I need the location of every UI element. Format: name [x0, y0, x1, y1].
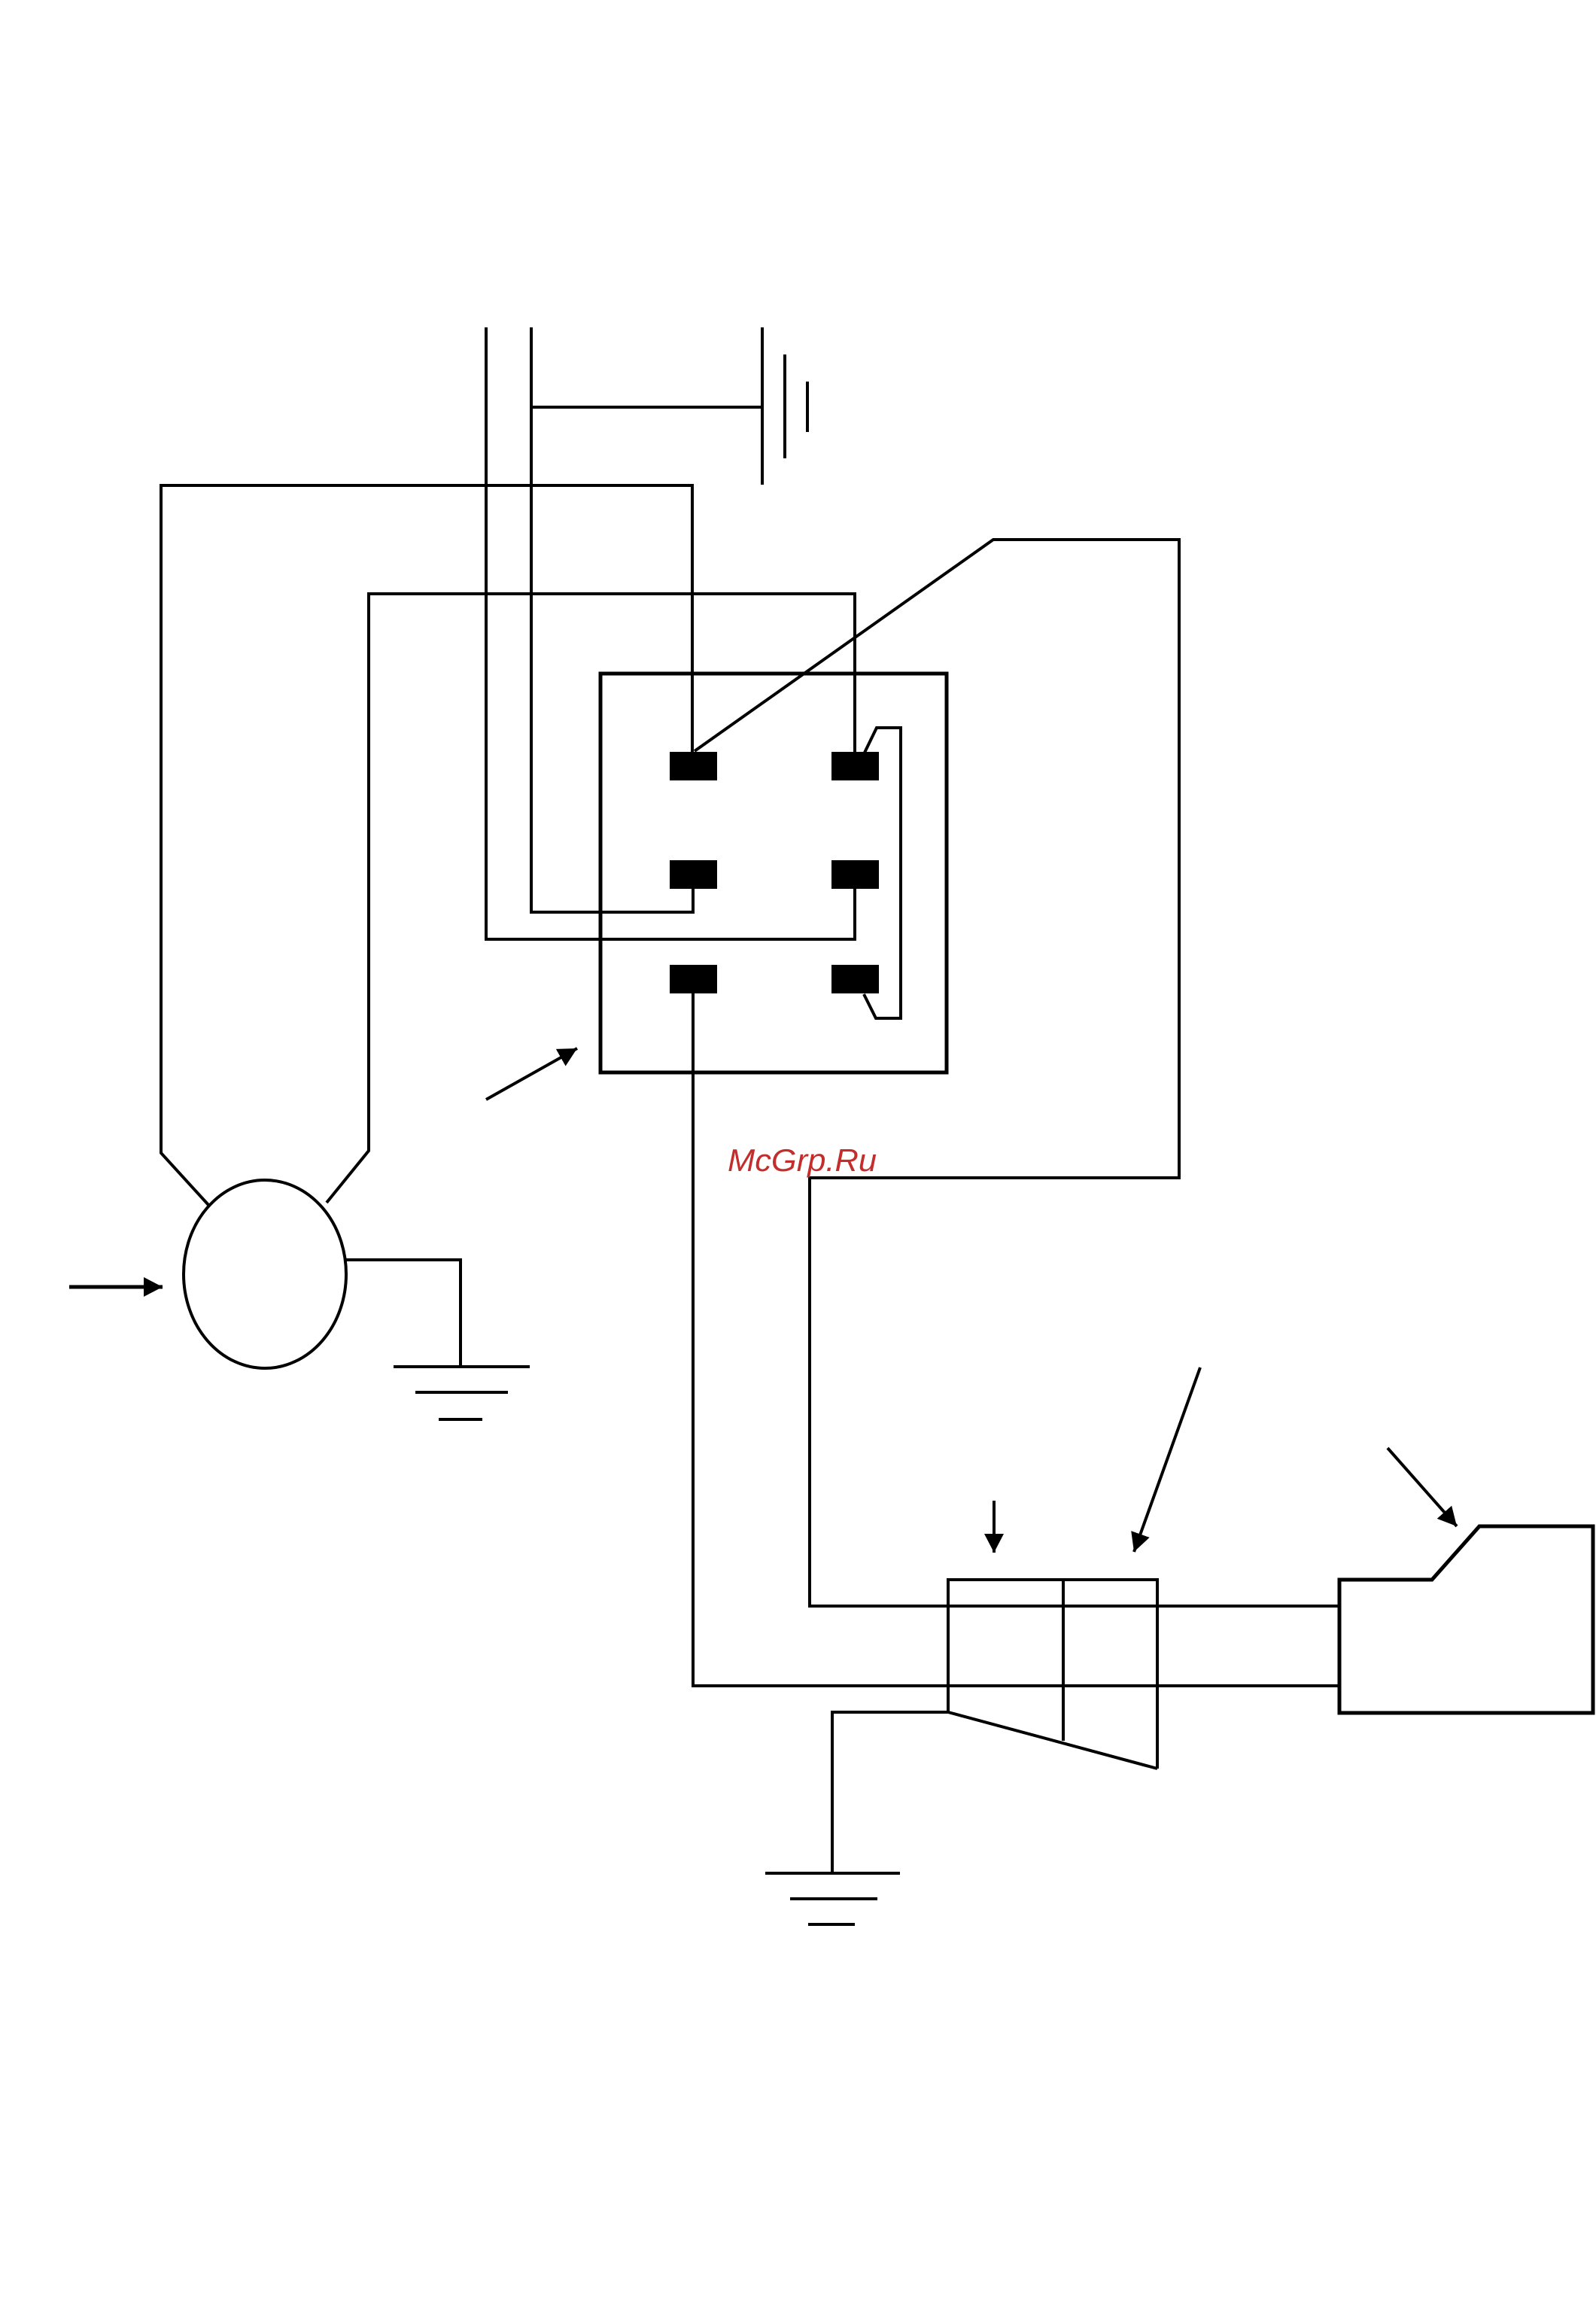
contact pin 4: [831, 860, 879, 889]
arrow to fuse left: [993, 1501, 996, 1553]
connector block: [1339, 1526, 1593, 1713]
ground bottom: [765, 1873, 900, 1924]
arrow to fuse right: [1134, 1367, 1200, 1552]
wire fuse to ground: [832, 1712, 948, 1873]
wire pin 5 to connector lower: [693, 993, 1340, 1686]
wire battery feed left: [486, 327, 855, 939]
wire pin 1 to connector upper: [695, 540, 1340, 1606]
wire pin 2 to pin 6 jumper: [864, 728, 901, 1018]
switch box: [600, 674, 947, 1072]
wire motor to ground: [345, 1260, 461, 1367]
wire motor lead A to switch pin 1: [161, 485, 692, 1205]
arrow to connector: [1388, 1448, 1457, 1526]
contact pin 2: [831, 752, 879, 780]
ground top-right chassis symbol: [762, 327, 807, 485]
motor M1: [184, 1180, 346, 1368]
wire motor lead B to switch pin 2: [327, 594, 855, 1203]
contact pin 3: [670, 860, 717, 889]
ground motor: [394, 1367, 530, 1419]
contact pin 5: [670, 965, 717, 993]
contact pin 6: [831, 965, 879, 993]
wire battery feed right: [531, 327, 693, 912]
arrow to switch box: [486, 1048, 577, 1100]
fuse block: [948, 1580, 1157, 1769]
svg-text:McGrp.Ru: McGrp.Ru: [728, 1142, 877, 1178]
arrow to motor: [69, 1285, 163, 1289]
wire to chassis ground top: [531, 406, 762, 409]
contact pin 1: [670, 752, 717, 780]
